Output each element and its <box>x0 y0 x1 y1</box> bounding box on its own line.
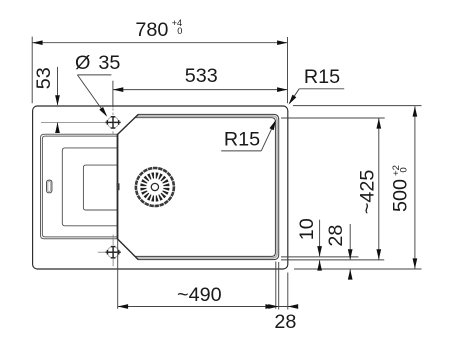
svg-text:10: 10 <box>296 218 318 240</box>
svg-text:780: 780 <box>135 19 168 41</box>
svg-text:533: 533 <box>185 65 218 87</box>
svg-text:Ø: Ø <box>75 52 90 74</box>
svg-text:~425: ~425 <box>356 170 378 215</box>
svg-text:28: 28 <box>274 311 296 333</box>
svg-text:0: 0 <box>399 167 410 172</box>
svg-text:R15: R15 <box>304 66 340 88</box>
svg-text:500: 500 <box>389 179 411 212</box>
svg-text:53: 53 <box>33 67 55 89</box>
svg-text:~490: ~490 <box>177 284 222 306</box>
svg-text:0: 0 <box>177 26 182 36</box>
svg-text:35: 35 <box>98 52 120 74</box>
svg-text:R15: R15 <box>224 128 260 150</box>
svg-text:28: 28 <box>325 225 347 247</box>
